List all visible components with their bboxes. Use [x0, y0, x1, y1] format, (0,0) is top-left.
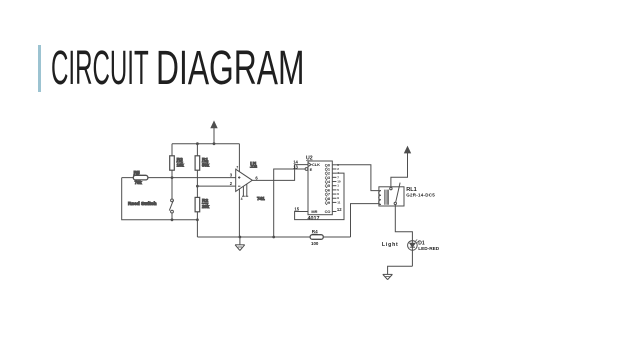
- wire MR to Q2 loop: [295, 173, 344, 219]
- wire coil return: [351, 204, 379, 237]
- resistor R4 100: [310, 235, 323, 240]
- relay RL1 box: [379, 187, 404, 206]
- svg-text:4017: 4017: [308, 216, 320, 222]
- resistor R3 10k: [170, 144, 175, 178]
- svg-text:3: 3: [230, 173, 233, 178]
- svg-text:741: 741: [257, 196, 265, 201]
- svg-text:20k: 20k: [202, 204, 210, 209]
- junction: VCC arrow at top rail: [213, 142, 216, 145]
- power VCC arrow 2: [405, 147, 411, 153]
- IC pin texts: [310, 162, 331, 214]
- CO stub: [332, 211, 336, 213]
- svg-text:LED-RED: LED-RED: [418, 246, 439, 251]
- svg-text:CLK: CLK: [312, 162, 320, 167]
- svg-text:Light: Light: [382, 242, 399, 248]
- wire enable to ground rail: [274, 169, 305, 237]
- enable bubble: [305, 168, 308, 171]
- node A: R3 bottom / reed switch / op-amp pin 3: [171, 176, 174, 179]
- svg-text:Reed Switch: Reed Switch: [128, 201, 157, 207]
- svg-text:7: 7: [236, 165, 238, 169]
- svg-text:U2: U2: [306, 156, 313, 162]
- junction: R1 top at top rail: [196, 142, 199, 145]
- svg-text:CO: CO: [325, 209, 331, 214]
- wire LED to ground: [388, 266, 413, 274]
- svg-text:MR: MR: [311, 209, 317, 214]
- op-amp U1 741: [236, 144, 253, 237]
- svg-text:E: E: [310, 167, 313, 172]
- svg-text:4: 4: [241, 197, 243, 201]
- wire VCC to relay common: [391, 153, 408, 188]
- relay switch blade: [390, 183, 400, 205]
- svg-text:50k: 50k: [202, 162, 210, 167]
- title accent bar: [38, 45, 41, 92]
- resistor R5 70k: [122, 175, 236, 180]
- svg-text:70k: 70k: [135, 180, 143, 185]
- svg-text:10k: 10k: [177, 162, 185, 167]
- LED D1: [408, 239, 419, 250]
- svg-text:100: 100: [311, 241, 319, 246]
- svg-text:G2R-14-DC5: G2R-14-DC5: [406, 193, 435, 198]
- reed switch: [169, 178, 173, 220]
- Q output stubs: [332, 165, 336, 203]
- node B: R1 bottom / R2 top / op-amp pin 2: [196, 185, 199, 188]
- svg-text:11: 11: [337, 200, 341, 204]
- junction: enable wire on bottom rail: [272, 236, 275, 239]
- slide title: [51, 40, 149, 96]
- resistor R1 50k: [195, 144, 200, 186]
- svg-text:12: 12: [337, 207, 342, 212]
- clock symbol: [308, 163, 311, 167]
- wire op-amp output to CLK: [252, 165, 308, 181]
- wire left loop: [122, 178, 198, 220]
- wire Q0 to relay coil: [336, 165, 379, 191]
- ground symbol left: [235, 237, 245, 251]
- svg-text:Q9: Q9: [325, 200, 331, 205]
- junction: return wire at R2 leg: [196, 218, 199, 221]
- wire relay to LED: [395, 205, 412, 267]
- junction: ground stem on bottom rail: [239, 236, 242, 239]
- Q pin numbers: [337, 163, 341, 205]
- svg-text:R4: R4: [312, 229, 318, 234]
- pin labels op-amp: [230, 165, 259, 201]
- svg-text:15: 15: [294, 206, 299, 211]
- ground symbol right: [383, 274, 393, 279]
- bottom rail: [197, 236, 350, 238]
- wire op-amp pin2: [197, 185, 235, 187]
- svg-text:R5: R5: [134, 170, 140, 176]
- junction: reed switch bottom on return wire: [171, 218, 174, 221]
- wire top rail: [172, 143, 239, 145]
- svg-text:6: 6: [255, 175, 258, 180]
- svg-text:2: 2: [230, 181, 233, 186]
- resistor R2 20k: [195, 186, 200, 237]
- power VCC arrow 1: [211, 122, 217, 144]
- relay coil: [379, 190, 389, 205]
- svg-text:U1: U1: [250, 162, 257, 168]
- IC U2 4017 body: [308, 161, 332, 215]
